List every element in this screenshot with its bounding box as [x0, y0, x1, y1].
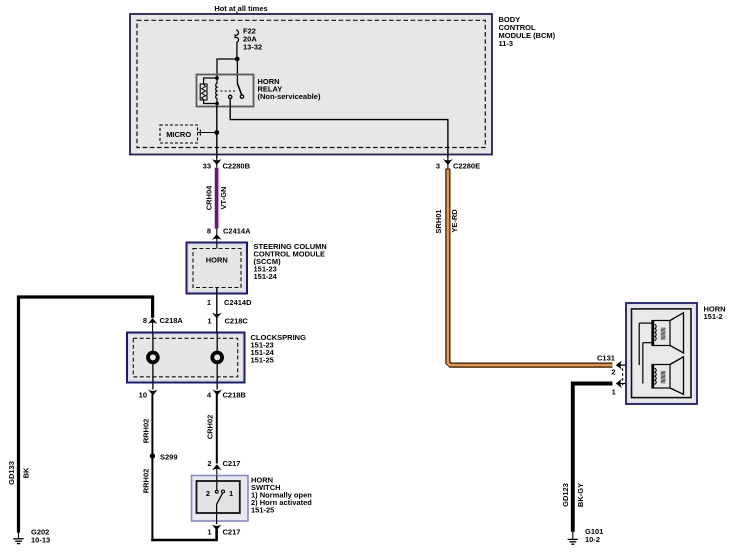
relay label — [258, 77, 321, 101]
wire purple to SCCM — [216, 229, 218, 243]
pin 2 label C217 — [207, 459, 211, 468]
svg-text:1: 1 — [229, 489, 233, 498]
svg-text:10-13: 10-13 — [31, 536, 50, 545]
svg-text:Hot at all times: Hot at all times — [214, 4, 267, 13]
svg-text:151-24: 151-24 — [254, 272, 278, 281]
svg-text:C217: C217 — [223, 459, 241, 468]
horn speaker bottom: coil box — [652, 364, 670, 389]
svg-text:151-25: 151-25 — [251, 356, 274, 365]
wire RRH02 label lower — [141, 469, 150, 494]
horn switch wire out — [216, 505, 218, 513]
switch HORN SWITCH label — [251, 476, 312, 515]
junction dot micro node — [214, 130, 219, 135]
connector C2414D label — [224, 298, 252, 307]
svg-text:1: 1 — [207, 298, 211, 307]
svg-text:SRH01: SRH01 — [434, 209, 443, 233]
connector C131 dashed link — [622, 369, 624, 386]
fuse F22 value label — [243, 27, 262, 52]
svg-text:8: 8 — [143, 316, 147, 325]
pin 33 label — [203, 162, 211, 171]
wire left branch from SCCM feed (thick) — [19, 297, 153, 533]
fuse F22 — [235, 30, 238, 45]
connector C2280E label — [453, 162, 480, 171]
relay switch common contact — [229, 95, 232, 98]
wire relay coil to C2280B — [216, 105, 218, 158]
svg-text:2: 2 — [611, 368, 615, 377]
module BCM label — [499, 15, 556, 48]
connector C217 top arrow — [212, 464, 222, 475]
module CLOCKSPRING label — [251, 333, 307, 365]
pin 8 label — [207, 227, 211, 236]
connector C218B arrow — [212, 390, 222, 396]
wire MICRO to coil wire — [198, 130, 216, 136]
svg-text:151-25: 151-25 — [251, 506, 274, 515]
svg-text:C2414A: C2414A — [223, 227, 251, 236]
connector C218C arrow — [212, 313, 222, 319]
pin 2 label inside switch — [206, 489, 210, 498]
svg-text:VT-GN: VT-GN — [219, 187, 228, 210]
svg-text:C2280E: C2280E — [453, 162, 480, 171]
module SCCM label — [254, 242, 327, 281]
connector C218B label — [223, 391, 247, 400]
relay actuator dashed link — [221, 90, 237, 92]
module CLOCKSPRING box — [127, 333, 245, 383]
pin 8 label C218A — [143, 316, 147, 325]
svg-text:S299: S299 — [160, 452, 178, 461]
svg-text:GD133: GD133 — [7, 461, 16, 485]
connector C218A arrow — [148, 318, 158, 333]
svg-text:C2280B: C2280B — [223, 162, 251, 171]
clockspring ring terminal left — [148, 333, 158, 390]
wire GD123 label — [561, 483, 570, 507]
module HORN box — [626, 303, 697, 404]
splice S299 — [150, 452, 178, 461]
horn internal wire pin2 vertical branch — [639, 323, 653, 365]
svg-text:YE-RD: YE-RD — [450, 209, 459, 233]
wire RRH02 upper — [151, 395, 153, 541]
connector C2280B arrow — [212, 159, 222, 168]
connector C217 top label — [223, 459, 241, 468]
junction dot coil bottom — [215, 102, 219, 106]
module HORN label — [704, 304, 726, 321]
wire GD123 BK-GY (thick black to horn) — [573, 384, 613, 532]
wire fuse to junction — [236, 44, 238, 59]
wire branch to relay coil — [217, 59, 237, 78]
connector C218A label — [160, 316, 184, 325]
svg-text:13-32: 13-32 — [243, 43, 262, 52]
wire relay switch to C2280E — [230, 99, 448, 159]
svg-text:HORN: HORN — [206, 255, 228, 264]
wire switch to C217 bottom — [216, 513, 218, 524]
ground G202 — [13, 533, 23, 544]
svg-text:C218A: C218A — [160, 316, 184, 325]
svg-text:RRH02: RRH02 — [141, 469, 150, 494]
pin 1 label inside switch — [229, 489, 233, 498]
pin 10 label — [139, 391, 147, 400]
svg-text:8: 8 — [207, 227, 211, 236]
svg-text:CRH04: CRH04 — [204, 185, 213, 210]
connector C2280B label — [223, 162, 251, 171]
wire GD133 label — [7, 461, 16, 485]
ground G202 label — [31, 528, 50, 545]
connector C2414A arrow — [212, 234, 222, 240]
svg-text:2: 2 — [207, 459, 211, 468]
connector C2414A label — [223, 227, 251, 236]
relay switch contact (moving end) — [240, 95, 243, 98]
svg-text:33: 33 — [203, 162, 211, 171]
svg-text:C218B: C218B — [223, 391, 247, 400]
wire CRH04 VT-GN (purple) — [214, 168, 219, 229]
connector C2280E arrow — [443, 159, 453, 169]
relay switch blade — [237, 84, 241, 95]
horn speaker top: coil box — [652, 320, 670, 346]
wire SCCM to clockspring — [216, 288, 218, 333]
wire YE-RD label — [450, 209, 459, 233]
horn speaker top: cone — [670, 313, 684, 353]
svg-text:1: 1 — [207, 528, 211, 537]
wire SRH01 YE-RD (orange) — [448, 169, 613, 366]
junction dot fuse output — [235, 57, 240, 62]
wire VT-GN label — [219, 187, 228, 210]
svg-text:BK-GY: BK-GY — [576, 483, 585, 507]
svg-text:1: 1 — [612, 388, 616, 397]
svg-text:CRH02: CRH02 — [205, 415, 214, 440]
svg-text:BK: BK — [22, 467, 31, 478]
svg-text:GD123: GD123 — [561, 483, 570, 507]
wire BK label — [22, 467, 31, 478]
resistor in relay (wiring) — [204, 78, 217, 104]
svg-text:C2414D: C2414D — [224, 298, 252, 307]
wire inside SCCM — [216, 243, 218, 249]
pin 1 label C217 bottom — [207, 528, 211, 537]
connector C217 bottom arrow — [212, 525, 222, 531]
svg-text:10-2: 10-2 — [585, 535, 600, 544]
micro U1 box — [160, 125, 198, 143]
wire SRH01 label — [434, 209, 443, 233]
junction dot coil top — [215, 76, 219, 80]
connector arrow clockspring pin 10 — [148, 390, 158, 396]
resistor R1 inside relay — [200, 84, 207, 100]
ground G101 label — [585, 527, 603, 544]
ground G101 — [568, 532, 578, 544]
pin 3 label — [436, 162, 440, 171]
svg-text:11-3: 11-3 — [499, 39, 514, 48]
svg-text:RRH02: RRH02 — [141, 419, 150, 444]
wire CRH04 label — [204, 185, 213, 210]
svg-text:C131: C131 — [597, 354, 615, 363]
wire RRH02 label upper — [141, 419, 150, 444]
horn internal wire pin1 vertical branch — [643, 343, 653, 384]
clockspring ring terminal right — [212, 333, 222, 390]
switch SW1 HORN SWITCH box — [192, 476, 249, 522]
pin 1 label C218C — [207, 317, 211, 326]
pin 2 label C131 — [611, 368, 615, 377]
node Hot at all times label — [214, 4, 267, 13]
relay K1 HORN RELAY box — [197, 75, 254, 107]
svg-text:1: 1 — [207, 317, 211, 326]
wire BK-GY label — [576, 483, 585, 507]
pin 4 label — [207, 391, 212, 400]
pin 1 label C2414D — [207, 298, 211, 307]
connector C131 arrow pin 1 — [616, 379, 652, 388]
horn switch contact 2 — [215, 490, 218, 493]
svg-text:(Non-serviceable): (Non-serviceable) — [258, 92, 321, 101]
svg-text:MICRO: MICRO — [166, 130, 191, 139]
connector C131 label — [597, 354, 615, 363]
horn switch contact 1 — [222, 490, 225, 493]
horn switch blade — [216, 493, 222, 505]
module SCCM box — [187, 243, 248, 294]
connector C217 bottom label — [223, 528, 241, 537]
svg-text:151-2: 151-2 — [704, 312, 723, 321]
wire hot feed into BCM — [236, 12, 238, 30]
svg-text:2: 2 — [206, 489, 210, 498]
relay coil winding — [216, 78, 217, 104]
wire junction to relay switch — [236, 59, 238, 84]
wire switch return to S299 branch — [151, 530, 216, 541]
connector C218C label — [225, 317, 249, 326]
horn switch wire in — [216, 476, 218, 491]
module BCM box — [130, 14, 492, 155]
svg-text:C217: C217 — [223, 528, 241, 537]
pin 1 label C131 — [612, 388, 616, 397]
connector C131 arrow pin 2 — [616, 360, 652, 369]
wire CRH02 — [216, 395, 218, 464]
horn speaker bottom: cone — [670, 357, 684, 395]
svg-text:10: 10 — [139, 391, 147, 400]
wire CRH02 label — [205, 415, 214, 440]
svg-text:3: 3 — [436, 162, 440, 171]
svg-text:C218C: C218C — [225, 317, 249, 326]
